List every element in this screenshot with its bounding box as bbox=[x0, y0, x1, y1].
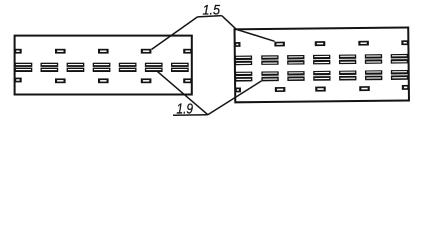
left plate louver group 4 bbox=[93, 63, 111, 72]
underline of label 1.9 bbox=[173, 114, 208, 117]
right plate bottom row edge half-slot right bbox=[402, 85, 410, 90]
right plate bottom row edge half-slot left bbox=[235, 87, 241, 92]
right plate top row slot 3 bbox=[358, 41, 369, 46]
right plate bottom row slot 3 bbox=[359, 86, 370, 91]
left plate louver group 7 bbox=[171, 63, 189, 72]
left plate louver group 6 bbox=[145, 63, 163, 72]
leader line from label 1.5 to right plate top slot 1 (bent at plate corner) bbox=[222, 16, 275, 42]
left plate top row slot 2 bbox=[98, 49, 109, 54]
right plate upper louver group 5 bbox=[339, 54, 356, 64]
right plate lower louver group 1 bbox=[235, 72, 252, 82]
right plate top row slot 2 bbox=[315, 41, 326, 46]
right plate bottom row slot 1 bbox=[275, 87, 286, 92]
left plate bottom row slot 3 bbox=[141, 78, 152, 83]
right plate outline bbox=[235, 27, 409, 102]
right plate lower louver group 7 bbox=[391, 70, 408, 80]
right plate lower louver group 2 bbox=[261, 71, 278, 81]
leader line from label 1.9 to right plate lower louver group 2 bbox=[208, 81, 262, 115]
right plate upper louver group 2 bbox=[261, 55, 278, 65]
right plate lower louver group 6 bbox=[365, 70, 382, 80]
left plate louver group 5 bbox=[119, 63, 137, 72]
left plate louver group 3 bbox=[67, 63, 85, 72]
right plate top row edge half-slot left bbox=[234, 42, 240, 47]
right plate upper louver group 4 bbox=[313, 55, 330, 65]
right plate upper louver group 1 bbox=[235, 56, 252, 66]
svg-text:1.5: 1.5 bbox=[203, 2, 221, 17]
underline of label 1.5 bbox=[198, 16, 222, 17]
left plate top row slot 3 bbox=[141, 49, 152, 54]
leader line from label 1.5 to left plate top slot 3 bbox=[152, 17, 198, 50]
left plate top row edge half-slot left bbox=[14, 49, 22, 54]
right plate top row edge half-slot right bbox=[401, 40, 409, 45]
right plate (slightly skewed as in scan) bbox=[234, 27, 409, 102]
right plate upper louver group 3 bbox=[287, 55, 304, 65]
left plate louver group 1 bbox=[15, 63, 33, 72]
left plate bottom row slot 1 bbox=[55, 78, 66, 83]
left plate top row slot 1 bbox=[55, 49, 66, 54]
leader line from left plate louver group 6 to label 1.9 bbox=[157, 71, 208, 114]
right plate upper louver group 7 bbox=[391, 54, 408, 64]
right plate lower louver group 5 bbox=[339, 71, 356, 81]
left plate bottom row slot 2 bbox=[98, 78, 109, 83]
left plate top row edge half-slot right bbox=[183, 49, 192, 54]
right plate lower louver group 4 bbox=[313, 71, 330, 81]
right plate lower louver group 3 bbox=[287, 71, 304, 81]
right plate upper louver group 6 bbox=[365, 54, 382, 64]
svg-text:1.9: 1.9 bbox=[177, 101, 194, 117]
left plate outline bbox=[15, 36, 192, 95]
left plate bottom row edge half-slot right bbox=[183, 78, 192, 83]
right plate bottom row slot 2 bbox=[315, 87, 326, 92]
right plate top row slot 1 bbox=[274, 42, 285, 47]
left plate bottom row edge half-slot left bbox=[14, 78, 22, 83]
left plate louver group 2 bbox=[41, 63, 59, 72]
